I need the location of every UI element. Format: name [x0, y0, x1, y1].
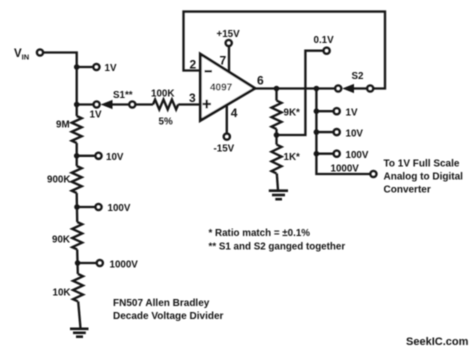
wire 100V tap stub — [77, 206, 95, 208]
terminal 1000V tap — [97, 260, 103, 266]
svg-text:6: 6 — [257, 74, 264, 88]
svg-text:1K*: 1K* — [284, 152, 301, 163]
ground right — [269, 189, 288, 192]
svg-text:Decade Voltage Divider: Decade Voltage Divider — [113, 311, 224, 322]
switch S1 wiper arrow — [101, 100, 113, 109]
wire 90K to 1000V tap — [76, 250, 79, 275]
wire 900K to 100V tap — [76, 193, 79, 222]
svg-text:S2: S2 — [352, 71, 365, 82]
wire 10V tap stub — [77, 155, 95, 157]
resistor R4 10K — [73, 274, 83, 301]
switch S2 wiper terminal — [367, 85, 373, 91]
svg-text:To 1V Full Scale: To 1V Full Scale — [384, 159, 460, 170]
resistor R7 1K* — [275, 135, 277, 145]
svg-text:Converter: Converter — [384, 185, 431, 196]
node 10V tap junction — [74, 153, 80, 159]
wire output pin6 — [255, 87, 334, 89]
wire 0.1V tap — [277, 51, 323, 135]
terminal 10V tap — [95, 153, 101, 159]
wire 1V tap stub — [77, 66, 93, 68]
node 100V tap junction — [74, 204, 80, 210]
svg-text:-15V: -15V — [214, 144, 235, 155]
svg-text:5%: 5% — [159, 117, 173, 128]
svg-text:9K*: 9K* — [284, 108, 301, 119]
switch S2 contact terminal — [335, 85, 341, 91]
op-amp minus input sign — [205, 70, 213, 72]
node bus 1V — [314, 108, 320, 114]
svg-text:4: 4 — [231, 106, 238, 120]
svg-text:1V: 1V — [346, 108, 358, 119]
svg-text:* Ratio match = ±0.1%: * Ratio match = ±0.1% — [209, 228, 311, 239]
svg-text:10V: 10V — [346, 129, 364, 140]
op-amp U1 4097 — [200, 54, 255, 121]
node S1 contact junction — [74, 102, 80, 108]
svg-text:7: 7 — [220, 54, 227, 68]
svg-text:SeekIC.com: SeekIC.com — [406, 336, 469, 348]
wire wiper to R5 — [136, 103, 153, 105]
wire R5 to pin 3 — [178, 103, 201, 105]
svg-text:0.1V: 0.1V — [314, 35, 335, 46]
svg-text:9M: 9M — [56, 120, 70, 131]
svg-text:3: 3 — [189, 91, 196, 105]
switch S1 contact terminal — [94, 101, 100, 107]
terminal bus 1000V — [370, 171, 376, 177]
node bus 100V — [314, 151, 320, 157]
terminal 1V top tap — [93, 64, 99, 70]
node 1V top tap junction — [74, 64, 80, 70]
wire VIN to ladder — [44, 53, 77, 117]
svg-text:10V: 10V — [106, 152, 124, 163]
node bus 10V — [314, 129, 320, 135]
svg-text:100V: 100V — [346, 150, 369, 161]
resistor R6 9K* — [275, 89, 277, 101]
switch S2 wiper arrow — [342, 84, 354, 93]
switch S1 wiper terminal — [129, 101, 135, 107]
wire 9M to 10V tap — [76, 143, 78, 166]
wire 1000V tap stub — [78, 262, 97, 264]
svg-text:+15V: +15V — [217, 29, 241, 40]
terminal +15V — [226, 40, 232, 46]
svg-text:1000V: 1000V — [110, 260, 139, 271]
svg-text:100K: 100K — [151, 89, 174, 100]
terminal bus 1V — [334, 108, 340, 114]
resistor R1 9M — [72, 116, 82, 143]
resistor R3 90K — [72, 222, 82, 249]
svg-text:1000V: 1000V — [331, 164, 360, 175]
svg-text:Analog to Digital: Analog to Digital — [384, 172, 464, 183]
wire 1K to ground — [277, 174, 278, 191]
terminal bus 100V — [334, 151, 340, 157]
svg-text:90K: 90K — [52, 235, 70, 246]
svg-text:4097: 4097 — [210, 83, 233, 94]
svg-text:900K: 900K — [47, 175, 70, 186]
terminal -15V — [224, 134, 230, 140]
terminal 0.1V — [324, 48, 330, 54]
pin 7 wire — [228, 47, 230, 73]
junction R6/R7 — [274, 132, 280, 138]
svg-text:100V: 100V — [108, 203, 131, 214]
node 1000V tap junction — [75, 260, 81, 266]
svg-text:1V: 1V — [105, 63, 117, 74]
wire feedback pin2 to S2 wiper — [184, 12, 386, 89]
wire S1 contact stub — [77, 103, 93, 105]
svg-text:S1**: S1** — [113, 90, 133, 101]
svg-text:FN507 Allen Bradley: FN507 Allen Bradley — [113, 298, 210, 309]
junction output / R6 — [274, 86, 280, 92]
terminal bus 10V — [334, 129, 340, 135]
svg-text:1V: 1V — [90, 110, 102, 121]
resistor R5 100K 5% — [153, 100, 178, 110]
terminal VIN — [37, 49, 43, 55]
ground left — [70, 327, 89, 330]
junction output / bus — [314, 86, 320, 92]
op-amp plus input sign — [203, 100, 212, 109]
wire 10K to ground — [78, 302, 80, 329]
svg-text:** S1 and S2 ganged together: ** S1 and S2 ganged together — [209, 242, 346, 253]
terminal 100V tap — [95, 204, 101, 210]
svg-text:10K: 10K — [53, 288, 71, 299]
pin 4 wire — [226, 105, 228, 133]
wire output bus vertical — [316, 89, 369, 175]
resistor R2 900K — [72, 166, 82, 193]
